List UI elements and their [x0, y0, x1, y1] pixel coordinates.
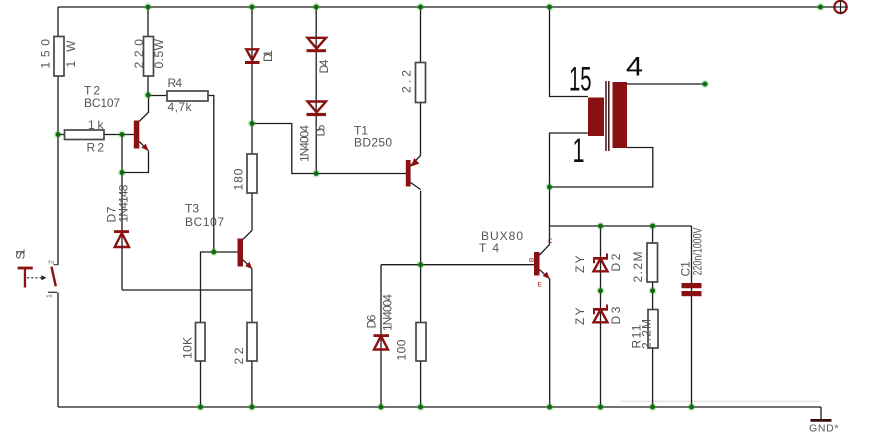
transistor T1 BD250 [354, 124, 421, 190]
junction bottom D3 [597, 403, 605, 411]
wire bottom rail [58, 406, 821, 408]
wire T1 collector down [420, 191, 422, 265]
junction bottom C1 [688, 403, 696, 411]
junction 2.2M R11 [649, 287, 657, 295]
svg-text:ZY: ZY [573, 256, 587, 274]
svg-text:10K: 10K [181, 337, 195, 359]
wire 220 rail [147, 7, 149, 95]
wire R2 left [58, 134, 65, 136]
wire T3 base to 10K [201, 252, 214, 407]
junction bottom D6 [377, 403, 385, 411]
wire faint artifact line [620, 400, 821, 402]
diode D1 [245, 49, 275, 64]
junction T3 base [210, 248, 218, 256]
wire D7 bottom to T3 emitter [122, 289, 252, 291]
resistor R4 4,7k [167, 76, 208, 114]
terminal pad top right [834, 0, 848, 14]
wire D7 rail [121, 173, 123, 291]
resistor 2.2M upper [631, 243, 658, 283]
junction D2 top [597, 222, 605, 230]
wire D1 180 rail [251, 7, 253, 230]
junction bottom 100 [417, 403, 425, 411]
junction top transformer rail [546, 3, 554, 11]
svg-text:4,7k: 4,7k [168, 100, 193, 114]
svg-text:T3: T3 [185, 202, 199, 216]
svg-text:C: C [548, 238, 553, 245]
wire T1 base [316, 173, 406, 175]
wire D2 D3 rail [600, 226, 602, 407]
svg-text:2.2: 2.2 [400, 70, 414, 93]
svg-text:1: 1 [573, 132, 585, 170]
svg-text:2: 2 [49, 260, 56, 264]
junction D5 bottom T1 base [312, 170, 320, 178]
junction T2 emitter D7 [118, 169, 126, 177]
svg-text:220n/1000V: 220n/1000V [691, 228, 705, 276]
junction top D1 rail [248, 3, 256, 11]
wire D4 D5 rail [315, 7, 317, 174]
svg-text:2.2M: 2.2M [640, 319, 654, 349]
wire T3 emitter rail [251, 269, 253, 407]
resistor 22 [232, 323, 257, 365]
svg-text:S1: S1 [14, 248, 28, 259]
svg-text:220: 220 [132, 39, 146, 69]
transistor T4 BUX80 [479, 229, 553, 289]
svg-text:R4: R4 [168, 76, 183, 90]
junction bottom 10K [197, 403, 205, 411]
resistor 100 [395, 323, 427, 362]
junction 2.2M top [649, 222, 657, 230]
wire top rail [58, 6, 835, 8]
diode D7 1N4148 [105, 184, 131, 247]
wire left rail lower (below switch) [57, 293, 59, 408]
svg-text:D6: D6 [365, 314, 379, 328]
diode D5 1N4004 [298, 102, 328, 163]
svg-text:D5: D5 [314, 124, 328, 136]
svg-text:150: 150 [39, 39, 53, 69]
svg-text:BD250: BD250 [354, 136, 392, 150]
transformer TR1 windings [588, 81, 627, 151]
wire transformer secondary top pin4 [627, 83, 705, 85]
junction R4 collector [144, 91, 152, 99]
svg-text:B: B [529, 258, 536, 262]
wire 2.2 rail to T1 emitter [420, 7, 422, 156]
svg-text:4: 4 [626, 52, 643, 82]
wire ground drop [820, 407, 822, 420]
svg-text:15: 15 [569, 61, 592, 99]
wire collector bus to right [550, 225, 692, 227]
wire transformer pin1 to T4 collector [550, 133, 589, 245]
svg-text:BUX80: BUX80 [481, 229, 523, 243]
wire R4 left [148, 95, 167, 97]
junction top terminal [817, 3, 825, 11]
wire bend D1 to D5 [252, 124, 316, 174]
zener D3 ZY [573, 305, 623, 326]
wire transformer right bottom loop [550, 148, 653, 188]
resistor 2.2 [400, 63, 426, 103]
svg-text:ZY: ZY [573, 308, 587, 326]
resistor 10K [181, 323, 206, 362]
junction R2 left rail [54, 131, 62, 139]
svg-text:GND*: GND* [809, 423, 839, 435]
wire T2 base down [121, 135, 123, 173]
resistor R2 1k [65, 118, 105, 155]
transistor T2 BC107 [84, 84, 149, 151]
junction bottom T4 emitter [546, 403, 554, 411]
junction bottom 22 [248, 403, 256, 411]
svg-text:1: 1 [47, 294, 54, 298]
junction D2 D3 [597, 287, 605, 295]
junction pin4 wire end [701, 80, 709, 88]
svg-text:E: E [538, 282, 543, 289]
resistor 220 0.5W [132, 37, 166, 77]
resistor 180 [232, 154, 258, 193]
junction top 220 rail [144, 3, 152, 11]
junction bottom R11 [649, 403, 657, 411]
wire R4 right and down [208, 96, 214, 253]
transistor T3 BC107 [185, 202, 252, 270]
wire 100 rail [420, 265, 422, 407]
junction top D4 rail [312, 3, 320, 11]
junction D1 bottom 180 [248, 120, 256, 128]
junction T1 collector mid bus [417, 261, 425, 269]
wire 2.2M R11 rail [652, 226, 654, 407]
junction top 2.2 rail [417, 3, 425, 11]
wire left rail [57, 7, 59, 265]
svg-text:1N4148: 1N4148 [117, 184, 131, 222]
wire transformer primary top feed [550, 7, 589, 97]
capacitor C1 220n/1000V [679, 228, 705, 297]
wire C1 rail [691, 226, 693, 407]
svg-text:1N4004: 1N4004 [298, 125, 312, 162]
svg-text:0.5W: 0.5W [152, 38, 166, 68]
svg-text:D4: D4 [317, 59, 331, 73]
wire D6 rail [380, 265, 382, 407]
wire T2 emitter down-left [122, 151, 149, 173]
junction transformer pin1 T4 collector [546, 183, 554, 191]
diode D6 1N4004 [365, 294, 395, 350]
svg-text:180: 180 [232, 168, 246, 190]
svg-text:D1: D1 [261, 50, 275, 62]
resistor 150 1W [39, 37, 79, 77]
wire T4 emitter down [549, 279, 551, 407]
svg-text:1N4004: 1N4004 [381, 294, 395, 331]
junction T2 base [118, 131, 126, 139]
wire T3 base [214, 251, 238, 253]
svg-text:BC107: BC107 [185, 215, 224, 229]
zener D2 ZY [573, 253, 623, 273]
switch S1 [14, 248, 59, 298]
ground GND symbol [809, 420, 839, 434]
svg-text:2.2M: 2.2M [631, 252, 645, 283]
diode D4 1N4004 [307, 38, 332, 74]
wire mid horizontal to T4 base [381, 264, 534, 266]
svg-text:BC107: BC107 [84, 96, 120, 110]
wire R2 to T2 base [104, 134, 134, 136]
svg-text:100: 100 [395, 339, 409, 360]
resistor R11 2.2M [630, 310, 659, 350]
